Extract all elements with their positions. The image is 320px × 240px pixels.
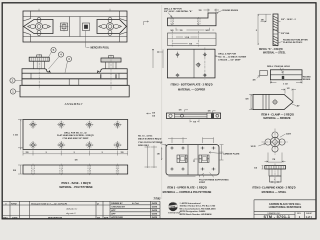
holes row1: [32, 123, 119, 126]
svg-text:ROUND EDGES: ROUND EDGES: [223, 10, 239, 12]
dims left: [258, 14, 271, 45]
svg-text:3/8"-16 NC - SEE DETAIL "A": 3/8"-16 NC - SEE DETAIL "A": [164, 10, 192, 13]
svg-text:MATERIAL — BRONZE: MATERIAL — BRONZE: [263, 117, 290, 120]
svg-text:SHEET: SHEET: [306, 213, 313, 215]
dims below plan: [169, 173, 205, 177]
svg-text:MERCURY POOL: MERCURY POOL: [91, 47, 110, 49]
end corner details: [23, 11, 127, 42]
side rect: [260, 70, 268, 75]
front view: [265, 166, 286, 170]
balloon 3: [66, 56, 71, 61]
plan rect: [23, 120, 128, 150]
main profile rect: [270, 70, 302, 80]
dim ext above plan: [168, 137, 214, 143]
svg-text:MATERIAL - POLYSTYRENE: MATERIAL - POLYSTYRENE: [59, 186, 93, 189]
balloon 2: [10, 78, 15, 83]
mercury pool leader: [85, 31, 89, 48]
svg-text:DATE: DATE: [12, 216, 18, 219]
svg-text:ITEM 3 - UPPER PLATE - 1 REQ'D: ITEM 3 - UPPER PLATE - 1 REQ'D: [167, 186, 207, 189]
svg-text:PLACING IN ITEM 2: PLACING IN ITEM 2: [283, 41, 303, 44]
plan rounded rect: [166, 145, 219, 175]
svg-text:Changed 5 1/16 to 3 — par 1-67: Changed 5 1/16 to 3 — par 1-67 (mP): [31, 202, 67, 205]
pentagon plan: [253, 94, 293, 109]
svg-text:APP: APP: [104, 216, 109, 219]
svg-text:sb/4 p&c rev: sb/4 p&c rev: [66, 208, 78, 211]
balloon 1: [10, 89, 15, 94]
svg-text:ITEM 2 - BOTTOM PLATE - 2 REQ': ITEM 2 - BOTTOM PLATE - 2 REQ'D: [171, 84, 213, 87]
side view: [23, 165, 128, 174]
center dividers: [70, 17, 81, 37]
left dim: [249, 94, 253, 109]
left knob front: [29, 54, 49, 90]
right dim bracket: [220, 145, 224, 160]
svg-text:MACH SCREW 8 REQ'D: MACH SCREW 8 REQ'D: [138, 138, 162, 141]
inner verticals: [188, 145, 198, 175]
svg-text:DATE: DATE: [152, 209, 158, 212]
svg-text:1/4 R: 1/4 R: [286, 133, 291, 136]
svg-text:CHECKED BY: CHECKED BY: [111, 207, 125, 209]
left bolt square: [61, 23, 68, 31]
stud: [273, 14, 278, 46]
svg-text:LONGITUDINAL RESISTANCE: LONGITUDINAL RESISTANCE: [269, 206, 302, 209]
dim above pentagon: [281, 89, 296, 101]
bottom dim chain: [23, 151, 128, 156]
balloon 5: [51, 47, 56, 52]
svg-text:1/8 R: 1/8 R: [251, 146, 256, 148]
svg-text:DATE: DATE: [152, 206, 158, 209]
left knob: [28, 17, 51, 35]
screw marks top row: [170, 146, 216, 171]
svg-text:EDGES: EDGES: [303, 79, 311, 81]
svg-text:ITEM 5 -CLAMPING KNOB - 2 REQ': ITEM 5 -CLAMPING KNOB - 2 REQ'D: [252, 186, 295, 189]
bottom plates band item2: [22, 79, 127, 86]
left clamp plate: [24, 20, 53, 34]
drawn-by block: [110, 201, 160, 219]
svg-text:NO. 10 - 32 NC: NO. 10 - 32 NC: [138, 135, 153, 137]
right clamp plate: [97, 20, 126, 34]
balloon 4: [58, 52, 63, 57]
svg-text:DRAWN BY: DRAWN BY: [111, 202, 123, 205]
right knob: [99, 17, 122, 35]
svg-text:STRIP: STRIP: [199, 182, 206, 184]
svg-text:C'SK ON POLYSTYRENE: C'SK ON POLYSTYRENE: [138, 142, 163, 144]
svg-text:4 HOLES — 1/2" DEEP: 4 HOLES — 1/2" DEEP: [218, 58, 241, 61]
dim below profile: [270, 80, 302, 83]
svg-text:ITEM 4 - CLAMP — 2 REQ'D: ITEM 4 - CLAMP — 2 REQ'D: [261, 113, 294, 116]
upper plate band item3: [22, 73, 127, 79]
title box: [254, 200, 316, 219]
pads: [177, 155, 187, 163]
holes row2: [32, 144, 119, 147]
profile bar: [168, 13, 217, 26]
svg-text:MATERIAL — COPPER & POLYSTYREN: MATERIAL — COPPER & POLYSTYRENE: [163, 191, 212, 194]
plan dim view: [168, 33, 217, 46]
svg-text:DATE: DATE: [152, 213, 158, 216]
svg-text:af: af: [97, 203, 99, 205]
right clamp pad item4: [97, 69, 127, 73]
svg-text:DRILL 17/64 DIA. HOLE: DRILL 17/64 DIA. HOLE: [267, 65, 291, 68]
svg-text:A. Fisk: A. Fisk: [131, 203, 140, 205]
svg-text:100 Barr Harbor Drive, PO Box: 100 Barr Harbor Drive, PO Box C700: [180, 205, 217, 208]
base item1: [20, 85, 129, 97]
tapped holes in bar: [171, 18, 174, 24]
svg-text:ASTM Designation: D4496: ASTM Designation: D4496: [180, 210, 207, 213]
svg-text:DESCRIPTION: DESCRIPTION: [48, 217, 63, 219]
holes: [177, 54, 206, 77]
svg-text:APP: APP: [111, 209, 116, 212]
profile bar: [167, 113, 221, 119]
dim below knob: [265, 153, 286, 163]
svg-text:MATERIAL — STEEL: MATERIAL — STEEL: [263, 51, 286, 54]
fold line: [161, 5, 163, 199]
svg-text:7/7/92: 7/7/92: [154, 198, 162, 201]
mercury pool square: [83, 23, 90, 31]
main plan view: [167, 49, 215, 78]
left dim: [18, 120, 24, 150]
svg-text:ASTM Stock Number: ADJD4496: ASTM Stock Number: ADJD4496: [180, 213, 213, 216]
svg-text:REV.: REV.: [3, 217, 8, 219]
svg-text:MATERIAL — STEEL: MATERIAL — STEEL: [262, 191, 287, 194]
right knob front: [101, 55, 121, 90]
svg-text:7/7/92: 7/7/92: [11, 203, 18, 205]
svg-text:© ASTM International: © ASTM International: [180, 202, 201, 205]
svg-text:DRILL & TAP FOR: DRILL & TAP FOR: [218, 52, 236, 55]
svg-text:chg note 3: chg note 3: [66, 212, 76, 215]
svg-text:APP: APP: [111, 213, 116, 216]
svg-text:DETAIL "A" - 2 REQ'D: DETAIL "A" - 2 REQ'D: [259, 48, 283, 51]
svg-text:CARBON BLACK TAPE CELL: CARBON BLACK TAPE CELL: [269, 203, 302, 206]
inner horizontals: [23, 17, 127, 37]
svg-text:MATERIAL — COPPER: MATERIAL — COPPER: [178, 88, 205, 91]
svg-text:C'SK AND SINK 1/8" DEEP: C'SK AND SINK 1/8" DEEP: [62, 137, 89, 140]
svg-text:45°: 45°: [297, 105, 300, 108]
svg-text:ITEM 1 - BASE - 1 REQ'D: ITEM 1 - BASE - 1 REQ'D: [61, 182, 91, 185]
svg-text:DATE: DATE: [152, 216, 158, 219]
svg-text:APPROVED: APPROVED: [111, 216, 123, 219]
outer body rect: [23, 11, 127, 42]
svg-text:1 of 1: 1 of 1: [306, 216, 313, 219]
small dims left of item3 profile: [147, 113, 152, 114]
svg-text:STM - 5701-1: STM - 5701-1: [264, 215, 291, 219]
svg-text:NO. 10 — 32 MACH. SCREW: NO. 10 — 32 MACH. SCREW: [218, 55, 246, 58]
svg-text:3/8" - 16 NC - 2: 3/8" - 16 NC - 2: [281, 19, 296, 21]
svg-text:ROUND BOTTOM AFTER: ROUND BOTTOM AFTER: [283, 39, 308, 42]
svg-text:ASSEMBLY: ASSEMBLY: [65, 102, 83, 106]
knob plan lobes: [265, 132, 285, 152]
left clamp pad item4: [22, 69, 50, 73]
knob centerline ticks: [39, 9, 110, 12]
svg-text:CARBON PLATE: CARBON PLATE: [223, 152, 240, 155]
svg-text:FLAT HEAD MACH SCREW - 8 REQ'D: FLAT HEAD MACH SCREW - 8 REQ'D: [57, 134, 94, 137]
step dim: [204, 9, 220, 13]
svg-text:3/8" DIA.: 3/8" DIA.: [281, 32, 290, 35]
svg-text:West Conshohocken, PA 19428-2: West Conshohocken, PA 19428-2959: [180, 207, 217, 210]
revision table: [3, 200, 160, 202]
dim left: [262, 166, 264, 170]
ASTM logo: [168, 202, 181, 215]
svg-text:DATE: DATE: [152, 202, 158, 205]
